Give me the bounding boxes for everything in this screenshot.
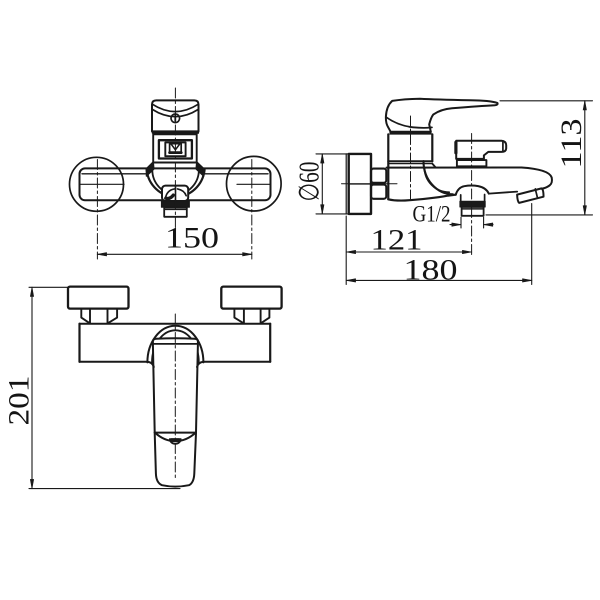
body column left edge <box>387 134 389 199</box>
bottom view bar top edge <box>80 323 271 325</box>
swoosh arc outer <box>424 161 453 194</box>
dim Ø60 bottom arrow <box>321 205 324 214</box>
svg-text:G1/2: G1/2 <box>413 202 451 228</box>
knob smile arc upper <box>152 104 198 111</box>
lever handle outline <box>386 99 498 132</box>
diverter main body <box>456 141 506 159</box>
dim 180 right extension <box>531 204 533 285</box>
bottom view bar right edge <box>269 324 271 362</box>
lever cap inner curve <box>386 117 432 128</box>
left circle vertical centerline / extension <box>96 160 98 260</box>
body bar outline <box>80 168 271 200</box>
dim G1/2 left ext <box>460 217 462 228</box>
dim Ø60 top arrow <box>321 154 324 163</box>
down-spout aerator <box>462 207 484 216</box>
dimension 150 right arrow <box>243 253 252 256</box>
left circle horizontal center mark <box>80 183 124 185</box>
right circle vertical centerline / extension <box>251 160 253 260</box>
cartridge nested rect mid <box>165 142 185 156</box>
knob screw circle <box>171 114 180 123</box>
dim 201 top extension <box>29 286 68 288</box>
shaft cap second line <box>153 343 198 345</box>
dimension 150 left arrow <box>97 253 106 256</box>
dim 180 right arrow <box>523 279 532 282</box>
swoosh arc inner <box>425 168 450 193</box>
right wall flange circle <box>227 156 282 211</box>
collar black band <box>390 131 432 134</box>
cartridge nested rect outer <box>159 140 192 158</box>
cartridge lower trapezoid line <box>172 155 179 157</box>
grip small outlet arc <box>170 439 181 444</box>
cartridge nested rect inner <box>170 144 182 153</box>
bottom dome inner arc <box>152 330 199 362</box>
cartridge thick underline <box>170 151 182 154</box>
dim 121/180 left extension (wall) <box>345 216 347 285</box>
dim G1/2 right ext <box>483 217 485 228</box>
bottom view centerline <box>174 314 176 479</box>
flange rect <box>349 154 371 214</box>
left wall flange circle <box>70 157 124 211</box>
shower outlet cap line <box>535 189 537 198</box>
dim 121 right arrow <box>462 250 471 253</box>
column cross line upper <box>388 160 432 162</box>
down-spout left side <box>460 195 462 202</box>
bar-to-shaft fillet right <box>197 362 203 367</box>
body bar inner highlight line left <box>82 173 147 175</box>
diverter head inner line <box>502 141 504 152</box>
dim Ø60 top extension <box>316 153 349 155</box>
spout right outline <box>522 168 552 189</box>
body bottom outline <box>388 195 455 201</box>
dome inner arc <box>152 170 199 195</box>
left hex nut <box>81 309 117 324</box>
diverter base collar <box>457 160 487 166</box>
spout tip left swoosh <box>165 189 174 199</box>
knob screw slot <box>174 116 176 121</box>
underside line to shower outlet <box>489 192 517 194</box>
bottom view bar left edge <box>78 324 80 362</box>
svg-text:180: 180 <box>404 254 458 287</box>
spout shoulder line <box>387 167 522 169</box>
left eccentric flange plate <box>68 287 129 309</box>
spout aerator inner line <box>165 208 187 210</box>
bottom dome outer arc <box>147 326 203 363</box>
dim G1/2 right leader+arrow <box>484 224 493 226</box>
dim 180 left arrow <box>346 279 355 282</box>
shaft-grip joint arc <box>155 432 196 441</box>
collar flare wedge left <box>147 162 154 176</box>
svg-text:201: 201 <box>3 376 36 426</box>
cartridge V mark <box>171 144 179 150</box>
column cross line lower <box>388 163 432 165</box>
down-spout black band <box>460 201 485 207</box>
dim Ø60 bottom extension <box>316 213 349 215</box>
bottom view bar bottom left segment <box>80 361 148 363</box>
spout aerator ring <box>164 207 187 217</box>
dim 121 line <box>346 251 471 253</box>
bottom view bar bottom right segment <box>203 361 270 363</box>
right circle horizontal center mark <box>237 183 270 185</box>
cartridge section body <box>153 134 197 162</box>
wall face line <box>345 154 347 214</box>
right hex nut <box>234 309 269 324</box>
dim 113 top extension <box>500 100 593 102</box>
dim 113 top arrow <box>583 101 586 110</box>
dim 201 top arrow <box>30 287 33 296</box>
shower outlet angled nozzle <box>517 188 543 203</box>
knob separation band <box>153 131 198 134</box>
upper body centerline <box>410 116 412 199</box>
svg-text:∅60: ∅60 <box>295 162 326 202</box>
hex adapter lower bump <box>371 185 386 199</box>
svg-text:150: 150 <box>165 222 219 255</box>
dim Ø60 line <box>321 154 323 214</box>
down-spout right side <box>484 195 486 202</box>
spout tip left thick blob <box>166 195 174 198</box>
horizontal centerline through flange <box>342 183 398 185</box>
body column right edge <box>431 134 433 161</box>
spout tip center line <box>175 186 177 201</box>
dimension 150 line <box>97 253 251 255</box>
svg-text:121: 121 <box>371 224 423 257</box>
body bar inner highlight line right <box>204 173 268 175</box>
grip small outlet dark line <box>171 438 179 440</box>
dim 121 left arrow <box>346 250 355 253</box>
handle shaft (seen end-on) <box>153 338 198 432</box>
down-spout dome <box>456 186 489 195</box>
grip outline <box>155 433 196 487</box>
dome outer arc (spout base) <box>147 170 205 197</box>
dim G1/2 left leader+arrow <box>450 224 461 226</box>
flange mid line <box>349 183 371 185</box>
hex adapter upper bump <box>371 169 386 183</box>
bar-to-shaft fillet left <box>148 362 154 367</box>
front view vertical centerline <box>174 88 176 233</box>
dim 113 line <box>584 101 586 215</box>
spout black band <box>161 201 189 207</box>
svg-text:113: 113 <box>555 119 588 169</box>
spout tip right swoosh <box>178 189 187 196</box>
diverter left butt <box>454 142 457 152</box>
handle knob outline <box>152 100 199 131</box>
column right flare <box>432 164 436 168</box>
dim 201 bottom arrow <box>30 479 33 488</box>
spout tip rounded rect <box>162 186 188 201</box>
collar flare wedge right <box>196 162 203 176</box>
spout/diverter centerline <box>471 134 473 257</box>
dim 201 line <box>31 287 33 488</box>
dim 113 bottom extension <box>486 214 593 216</box>
right eccentric flange plate <box>221 287 281 309</box>
dim 113 bottom arrow <box>583 206 586 215</box>
dim 180 line <box>346 279 531 281</box>
knob smile arc lower <box>152 109 198 116</box>
dim 201 bottom extension <box>29 488 180 490</box>
